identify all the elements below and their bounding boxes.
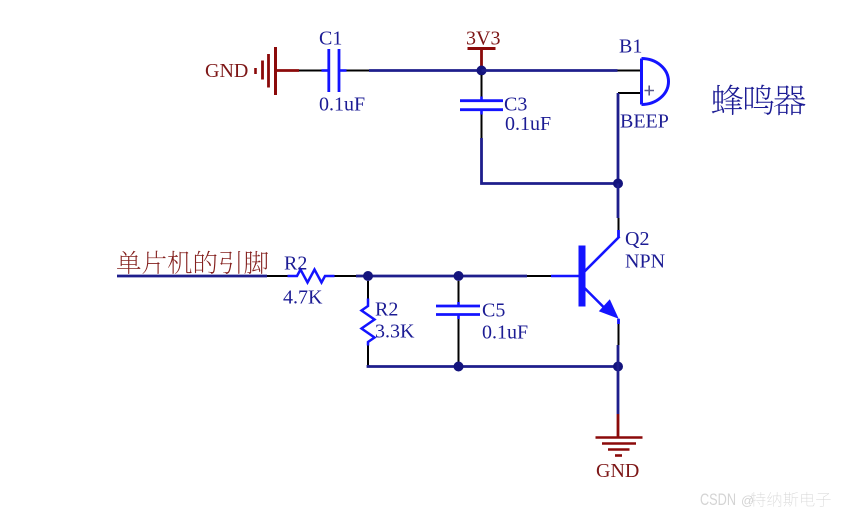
svg-text:GND: GND bbox=[596, 460, 639, 482]
svg-text:B1: B1 bbox=[619, 36, 642, 58]
svg-text:GND: GND bbox=[205, 60, 248, 82]
junction 3V3 node bbox=[477, 66, 487, 76]
junction base node (R2 3.3K tap) bbox=[363, 271, 373, 281]
wire C1 to 3V3 node bbox=[369, 69, 482, 72]
wire buzzer negative pin down to collector node bbox=[617, 93, 620, 184]
capacitor C1 bbox=[299, 49, 369, 92]
svg-text:NPN: NPN bbox=[625, 251, 665, 273]
wire collector node to Q2 collector bbox=[617, 184, 620, 219]
capacitor C5 bbox=[436, 281, 480, 365]
svg-text:3V3: 3V3 bbox=[466, 28, 500, 50]
svg-text:R2: R2 bbox=[284, 253, 307, 275]
junction emitter node bbox=[613, 362, 623, 372]
watermark CSDN @特纳斯电子 bbox=[700, 490, 831, 509]
svg-text:4.7K: 4.7K bbox=[283, 287, 323, 309]
capacitor C3 bbox=[460, 75, 503, 138]
wire R2 to Q2 base bbox=[356, 275, 527, 278]
svg-text:C1: C1 bbox=[319, 28, 342, 50]
svg-text:Q2: Q2 bbox=[625, 228, 649, 250]
junction bottom rail at C5 bbox=[454, 362, 464, 372]
annotation text 蜂鸣器 bbox=[712, 84, 806, 115]
svg-text:R2: R2 bbox=[375, 299, 398, 321]
wire bottom rail (R2/C5/emitter) bbox=[368, 365, 618, 367]
wire 3V3 node to buzzer B1 bbox=[482, 69, 618, 72]
power port GND (top-left) bbox=[205, 47, 299, 95]
power port 3V3 bbox=[466, 28, 500, 67]
power port GND (bottom) bbox=[596, 414, 643, 482]
wire emitter node to GND bbox=[617, 367, 620, 415]
wire MCU pin to R2 bbox=[117, 275, 267, 278]
svg-text:0.1uF: 0.1uF bbox=[319, 94, 365, 116]
svg-text:0.1uF: 0.1uF bbox=[505, 113, 551, 135]
resistor R2 (4.7K, horizontal) bbox=[267, 270, 356, 283]
svg-text:C5: C5 bbox=[482, 300, 505, 322]
transistor Q2 (NPN) bbox=[527, 218, 620, 345]
svg-text:0.1uF: 0.1uF bbox=[482, 322, 528, 344]
svg-text:CSDN: CSDN bbox=[700, 490, 736, 509]
resistor R2 (3.3K, vertical) bbox=[362, 281, 375, 365]
svg-text:3.3K: 3.3K bbox=[375, 321, 415, 343]
junction collector node bbox=[613, 179, 623, 189]
wire C3 to collector node bbox=[482, 138, 619, 184]
svg-text:BEEP: BEEP bbox=[620, 111, 669, 133]
junction base node (C5 tap) bbox=[454, 271, 464, 281]
net label 单片机的引脚 bbox=[117, 251, 268, 274]
buzzer B1 bbox=[618, 59, 669, 105]
wire emitter pin to node bbox=[617, 345, 620, 367]
svg-text:@: @ bbox=[741, 493, 754, 508]
